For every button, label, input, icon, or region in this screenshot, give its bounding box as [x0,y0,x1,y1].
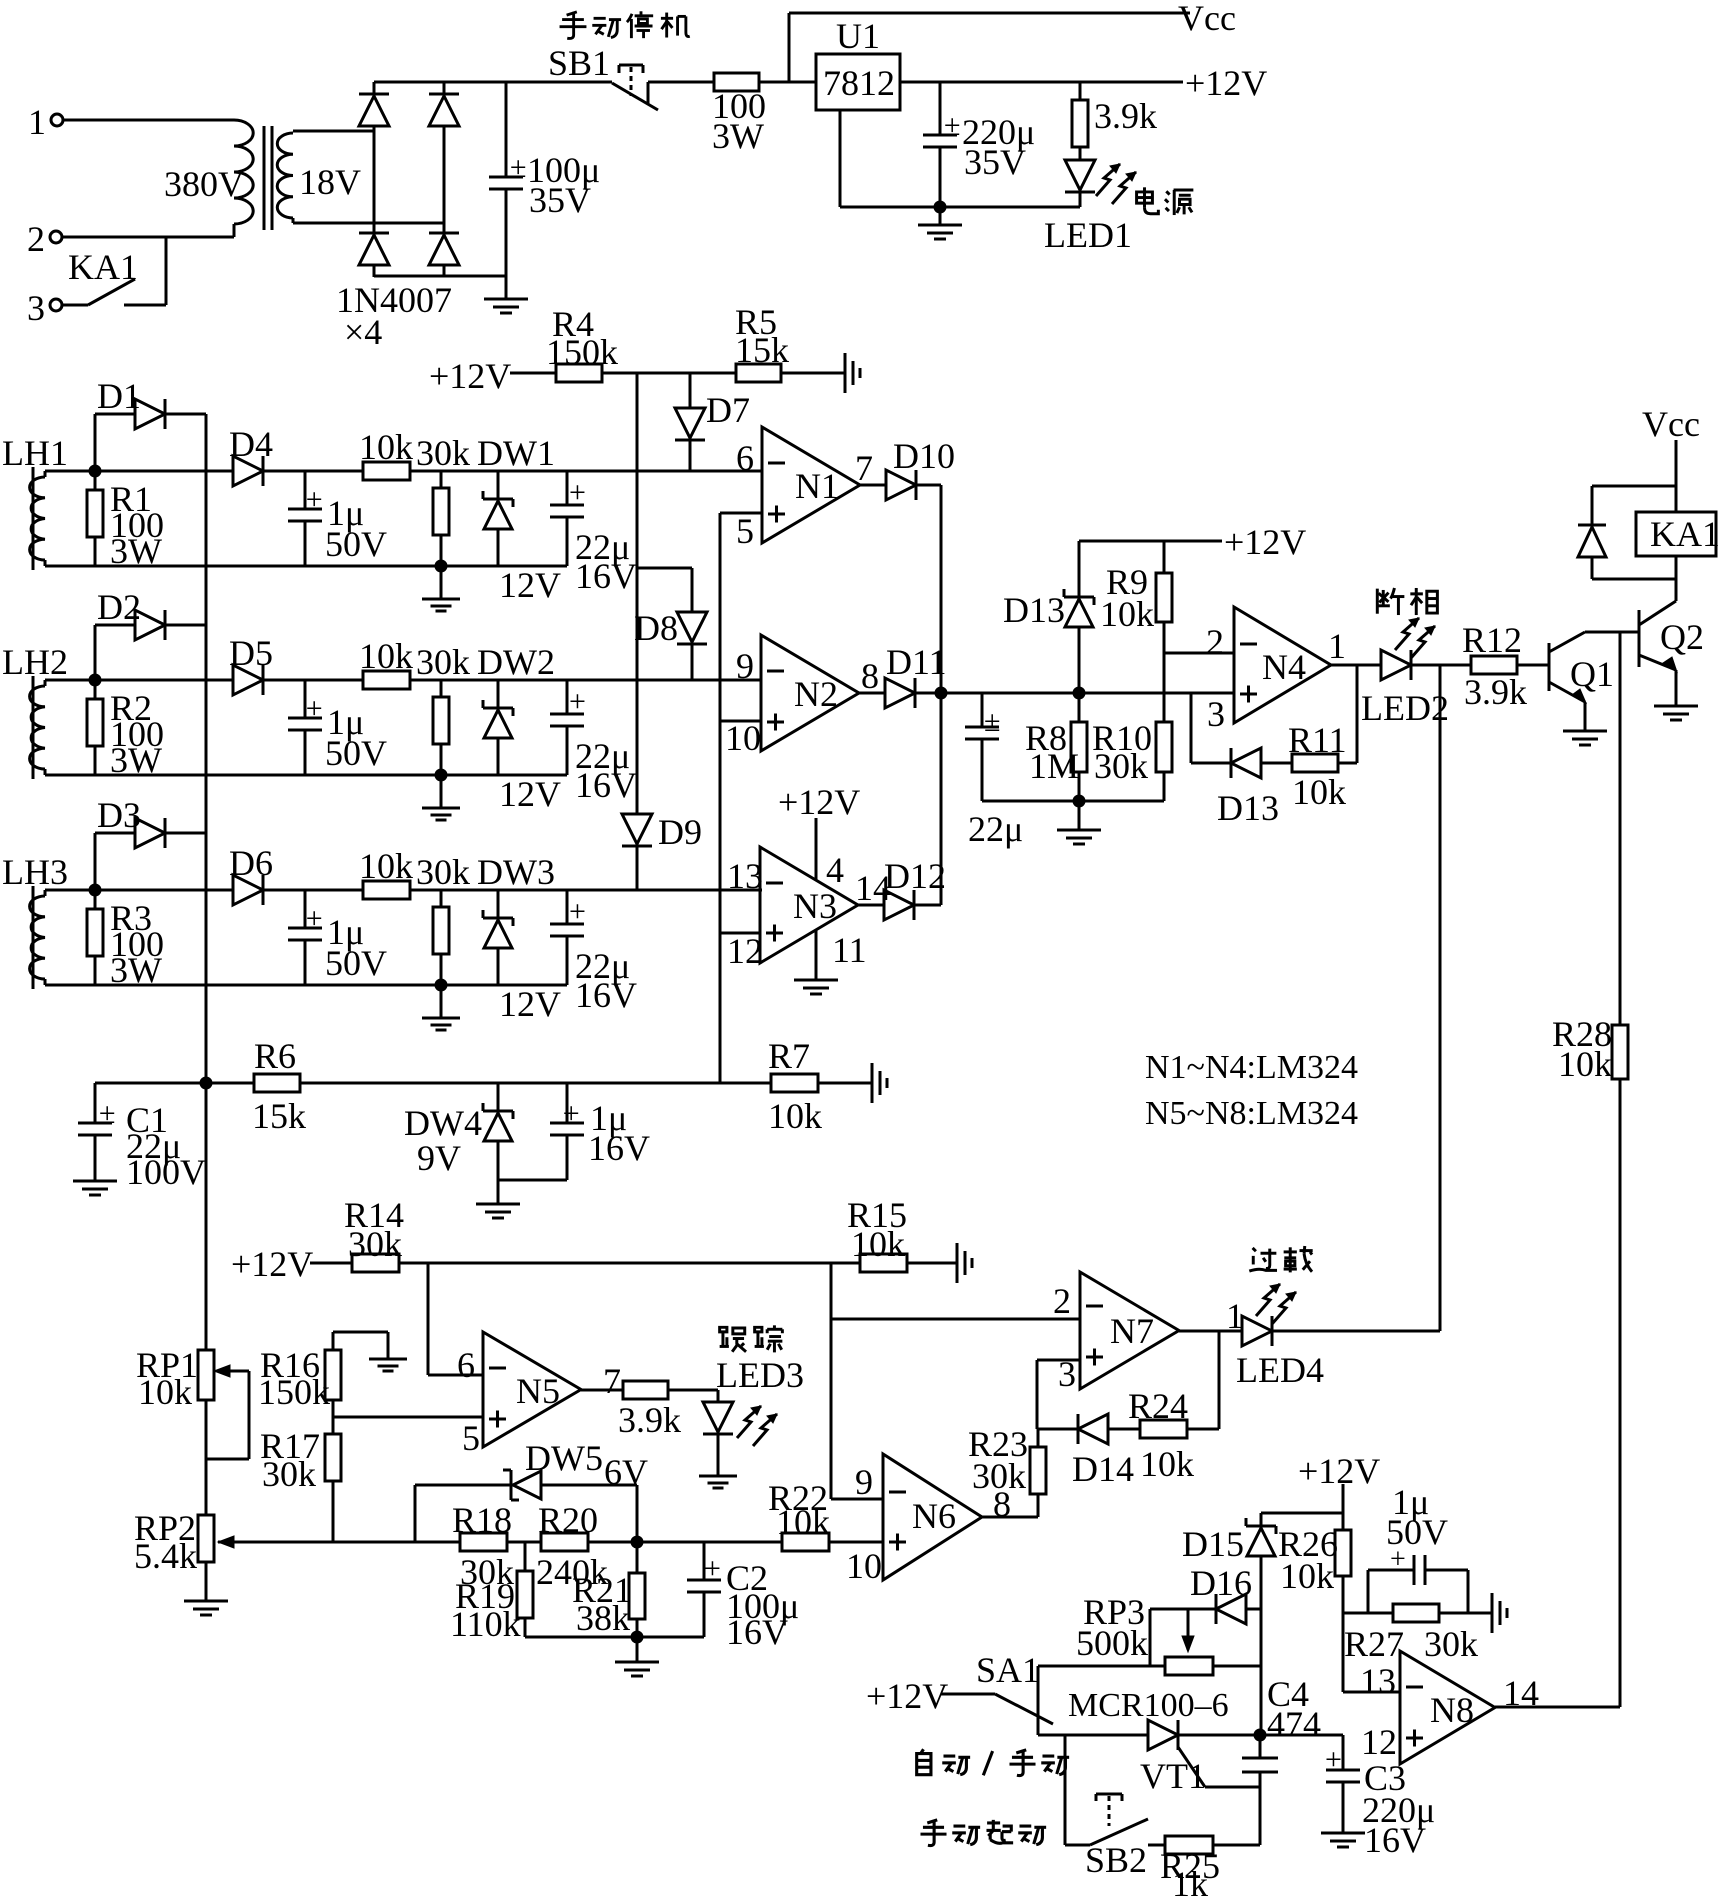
wire [1178,1734,1260,1737]
svg-text:±: ± [944,109,960,142]
diode D4 [229,424,273,486]
capacitor C1 22u 100V [78,1083,206,1192]
diode D9 [622,812,702,890]
wire [1191,762,1231,765]
LED2 [1361,618,1449,728]
wire [982,1516,1038,1519]
ground [918,207,962,239]
svg-text:13: 13 [1360,1661,1396,1701]
svg-text:D14: D14 [1072,1449,1134,1489]
wire [781,372,845,375]
label +12V [1185,63,1267,103]
wire N5 pin5 [333,1416,483,1419]
wire [1272,1330,1440,1333]
zener DW2 12V [477,642,561,814]
transformer core [264,126,272,230]
diode D13 feedback [1217,748,1279,828]
svg-text:10k: 10k [359,846,413,886]
wire [410,889,762,892]
diode D10 [860,436,955,500]
svg-text:D10: D10 [893,436,955,476]
svg-text:16V: 16V [575,975,637,1015]
wire [829,1541,883,1544]
label duan-xiang [1377,588,1437,615]
ground [615,1637,659,1676]
wire wiper rail [238,1541,460,1544]
svg-text:Q2: Q2 [1660,617,1704,657]
svg-text:7: 7 [603,1361,621,1401]
wire [1343,1612,1393,1615]
svg-text:12V: 12V [499,565,561,605]
resistor R17 30k [260,1400,341,1542]
wire [45,565,567,568]
resistor R21 38k [572,1542,645,1638]
wire [637,567,692,570]
svg-text:10k: 10k [1292,772,1346,812]
wire [293,218,444,223]
resistor R1 100 3W [87,471,164,571]
wire [1260,1734,1343,1737]
label Vcc [1178,0,1236,38]
node Vcc branch [788,13,791,82]
svg-text:±: ± [510,151,526,184]
ground [1057,801,1101,844]
op-amp N3 [727,847,891,971]
svg-text:30k: 30k [416,642,470,682]
svg-text:6: 6 [736,438,754,478]
svg-text:50V: 50V [325,733,387,773]
svg-text:7812: 7812 [823,63,895,103]
wire [907,1262,957,1265]
wire +12V rail [1079,540,1222,543]
svg-text:N4: N4 [1262,647,1306,687]
resistor 30k [416,852,470,985]
svg-text:N1: N1 [795,466,839,506]
svg-text:D11: D11 [886,642,947,682]
svg-text:10: 10 [846,1546,882,1586]
node [1073,687,1086,700]
op-amp N1 [736,427,873,551]
svg-text:12: 12 [1361,1722,1397,1762]
transistor Q1 [1549,632,1614,703]
capacitor 22u 16V [550,890,637,1015]
svg-text:N5: N5 [516,1371,560,1411]
wire [263,470,363,473]
svg-text:22μ: 22μ [968,809,1023,849]
wire [1439,1612,1492,1615]
svg-text:SB2: SB2 [1085,1840,1147,1880]
wire [45,470,95,473]
wire [95,470,233,473]
svg-text:2: 2 [1053,1281,1071,1321]
wire [45,889,95,892]
wire [759,81,816,84]
resistor R2 100 3W [87,680,164,780]
label LM324 [1145,1049,1358,1132]
wire N8 out [1495,1706,1620,1709]
capacitor 1u 50V [288,680,387,775]
wire [982,800,1164,803]
zener DW1 12V [477,433,561,605]
wire [63,224,234,237]
zener D13 [1003,541,1094,693]
svg-text:N8: N8 [1430,1690,1474,1730]
wire [720,1082,872,1085]
svg-text:16V: 16V [726,1612,788,1652]
resistor 10k [359,427,413,480]
svg-text:DW2: DW2 [477,642,555,682]
label +12V [429,356,511,396]
svg-text:12: 12 [727,931,763,971]
svg-text:30k: 30k [1424,1624,1478,1664]
wire [1338,665,1357,763]
svg-text:D8: D8 [634,608,678,648]
diode D5 [229,633,273,695]
diode D11 [859,642,947,708]
svg-text:50V: 50V [325,943,387,983]
label +12V [778,782,860,822]
svg-text:±: ± [306,483,322,516]
wire [410,679,762,682]
svg-text:10k: 10k [1280,1556,1334,1596]
resistor R5 15k [735,302,789,382]
diode bridge D-BR 1N4007 [429,233,459,265]
svg-text:380V: 380V [164,164,244,204]
svg-text:10k: 10k [138,1372,192,1412]
resistor 3.9k [1072,82,1157,147]
svg-text:+12V: +12V [866,1676,948,1716]
diode D16 [1150,1563,1261,1624]
resistor R4 150k [546,304,618,382]
label guo-zai [1249,1246,1312,1272]
wire [704,1541,782,1544]
svg-text:LED2: LED2 [1361,688,1449,728]
svg-text:KA1: KA1 [68,247,138,287]
LED4 [1236,1284,1324,1390]
svg-text:5: 5 [736,511,754,551]
svg-text:150k: 150k [258,1372,330,1412]
node [200,1077,213,1090]
SCR VT1 [1038,1720,1261,1796]
svg-text:30k: 30k [972,1456,1026,1496]
op-amp N6 [846,1454,1011,1586]
terminal 2 [27,219,62,259]
node [435,769,448,782]
svg-text:16V: 16V [1364,1820,1426,1860]
svg-text:SB1: SB1 [548,43,610,83]
wire [1108,1428,1140,1431]
wire [941,692,1234,695]
diode bridge D-TL 1N4007 [359,94,389,126]
svg-text:N6: N6 [912,1496,956,1536]
svg-text:LH2: LH2 [2,642,68,682]
diode D6 [229,843,273,905]
potentiometer RP1 10k [136,1345,249,1459]
regulator U1 7812 [816,16,900,110]
op-amp N5 [457,1332,621,1458]
svg-text:MCR100–6: MCR100–6 [1068,1687,1229,1724]
svg-text:30k: 30k [416,433,470,473]
resistor 30k [416,433,470,566]
wire [510,372,556,375]
transformer T secondary 18V [277,133,361,218]
wire bus outputs [940,485,943,905]
pushbutton SB1 [548,43,658,110]
svg-text:1k: 1k [1172,1864,1208,1896]
resistor R7 10k [768,1036,822,1136]
node [435,979,448,992]
svg-text:Vcc: Vcc [1178,0,1236,38]
current transformer LH1 [2,433,68,570]
wire Vcc rail [789,12,1190,15]
wire [1149,1609,1152,1666]
resistor R8 1M [1025,693,1087,801]
svg-text:+12V: +12V [231,1244,313,1284]
capacitor 22u 16V [550,471,637,596]
ground [476,1204,520,1218]
svg-text:30k: 30k [416,852,470,892]
wire N8 pin13 [1343,1691,1400,1694]
wire [443,82,446,94]
capacitor C4 474 [1242,1674,1321,1845]
svg-text:±: ± [306,692,322,725]
svg-text:LED1: LED1 [1044,215,1132,255]
svg-text:R12: R12 [1462,620,1522,660]
svg-text:6: 6 [457,1345,475,1385]
node LH1 out [89,465,102,478]
wire [1187,1331,1219,1429]
svg-text:LH3: LH3 [2,852,68,892]
wire [263,889,363,892]
ground [699,1476,737,1488]
wire [720,512,762,515]
svg-text:4: 4 [826,850,844,890]
wire [588,1541,704,1544]
node [631,1536,644,1549]
ground [1492,1593,1507,1633]
resistor R27 30k [1344,1604,1478,1664]
svg-text:LH1: LH1 [2,433,68,473]
svg-text:50V: 50V [325,524,387,564]
wire [443,265,446,277]
resistor R22 10k [768,1478,830,1551]
resistor 30k [416,642,470,775]
svg-text:+: + [1325,1743,1342,1776]
node LH2 out [89,674,102,687]
label +12V [231,1244,313,1284]
svg-text:110k: 110k [450,1604,521,1644]
wire [293,130,374,133]
svg-text:±: ± [563,1097,579,1130]
resistor R14 30k [344,1195,404,1272]
wire [374,81,612,84]
wire [206,1082,720,1085]
ground [957,1243,972,1283]
wire [1342,1484,1345,1530]
svg-text:+: + [569,685,586,718]
svg-text:10k: 10k [1100,594,1154,634]
label zi-dong/shou-dong [917,1749,1069,1775]
svg-text:2: 2 [1206,622,1224,662]
ground [1321,1833,1365,1847]
wire [1037,1666,1040,1735]
LED1 [940,147,1136,255]
diode D14 [1037,1414,1134,1489]
svg-text:10k: 10k [359,427,413,467]
capacitor 1u 50V [288,471,387,566]
wire [1261,762,1292,765]
wire [720,720,761,723]
ground [484,276,528,313]
svg-text:±: ± [306,902,322,935]
svg-text:10k: 10k [1558,1044,1612,1084]
wire [668,1389,718,1392]
resistor R25 1k [1148,1836,1260,1896]
svg-text:9: 9 [855,1462,873,1502]
svg-text:D7: D7 [706,390,750,430]
resistor R9 10k [1100,541,1172,722]
diode D3 [95,795,206,890]
svg-text:500k: 500k [1076,1623,1148,1663]
svg-text:7: 7 [855,448,873,488]
potentiometer RP2 5.4k [134,1400,238,1576]
svg-text:11: 11 [832,930,867,970]
zener D15 [1182,1513,1276,1735]
wire N4 out [1331,664,1381,667]
svg-text:SA1: SA1 [976,1650,1040,1690]
wire [95,679,233,682]
svg-text:D9: D9 [658,812,702,852]
transistor Q2 [1639,601,1704,672]
resistor R15 10k [847,1195,907,1272]
diode bridge D-BL 1N4007 [359,233,389,265]
svg-text:DW3: DW3 [477,852,555,892]
svg-text:N1~N4:LM324: N1~N4:LM324 [1145,1049,1358,1086]
svg-text:16V: 16V [575,556,637,596]
svg-text:N2: N2 [794,674,838,714]
zener DW4 9V [404,1083,513,1204]
diode flyback [1578,486,1676,579]
svg-text:R7: R7 [768,1036,810,1076]
svg-text:N3: N3 [793,886,837,926]
node [934,201,947,214]
potentiometer RP3 500k [1076,1592,1213,1675]
svg-text:30k: 30k [262,1454,316,1494]
resistor R16 150k [258,1332,388,1412]
transformer T primary 380V [164,120,253,224]
current transformer LH3 [2,852,68,989]
op-amp N7 [1053,1272,1244,1394]
label Vcc [1642,404,1700,444]
wire bus plus-inputs [719,513,722,1083]
wire feedback tap [1190,693,1193,763]
resistor R19 110k [450,1542,533,1644]
wire riser to LED2 node [1439,665,1442,1331]
wire N3 V+ pin4 [815,818,818,880]
diode D1 [95,376,206,471]
diode D7 [675,373,750,471]
resistor R12 3.9k [1462,620,1527,712]
svg-text:1: 1 [1328,626,1346,666]
wire [95,889,233,892]
svg-text:LED4: LED4 [1236,1350,1324,1390]
svg-text:+: + [569,476,586,509]
wire [1411,664,1471,667]
wire [45,774,567,777]
svg-text:D13: D13 [1003,590,1065,630]
wire [95,1082,206,1085]
wire [373,82,376,94]
svg-text:3W: 3W [712,116,764,156]
svg-text:+: + [1390,1544,1406,1575]
svg-text:10k: 10k [768,1096,822,1136]
wire [374,275,506,278]
label MCR100-6 [1068,1687,1229,1724]
svg-text:N5~N8:LM324: N5~N8:LM324 [1145,1095,1358,1132]
label 1N4007 x4 [336,280,452,352]
resistor R18 30k [452,1500,514,1592]
wire [310,1262,352,1265]
svg-text:N7: N7 [1110,1311,1154,1351]
svg-text:474: 474 [1267,1704,1321,1744]
zener DW5 6V [415,1438,648,1542]
svg-text:+12V: +12V [778,782,860,822]
diode D8 [634,568,707,680]
svg-text:9: 9 [736,646,754,686]
svg-text:KA1: KA1 [1650,514,1718,554]
svg-text:×4: ×4 [344,312,382,352]
svg-text:18V: 18V [299,162,361,202]
svg-text:3: 3 [27,288,45,328]
wire [1517,664,1549,667]
op-amp N4 [1207,607,1346,734]
op-amp N8 [1360,1651,1539,1764]
terminal 1 [28,102,63,142]
wire [45,679,95,682]
svg-text:10k: 10k [776,1502,830,1542]
label gen-zong [720,1325,783,1352]
ground N3 pin11 [794,930,838,994]
svg-text:U1: U1 [836,16,880,56]
wire N7 pin2 [831,1318,1080,1321]
ground [422,566,460,611]
wire [1261,1512,1343,1515]
label dian-yuan [1137,187,1194,215]
capacitor 100u 35V [489,82,600,276]
svg-text:±: ± [984,705,1000,738]
relay coil KA1 [1636,512,1718,556]
wire [63,119,234,122]
ground [872,1063,887,1103]
ground [422,775,460,820]
wire N5 pin6 drop [428,1263,483,1375]
wire [831,1498,883,1501]
capacitor 1u 50V [288,890,387,985]
svg-text:13: 13 [727,856,763,896]
capacitor 1u 50V feedback [1368,1482,1468,1613]
diode D12 [858,856,946,920]
resistor 10k [359,846,413,899]
resistor 100 3W [712,73,766,156]
wire [525,1636,704,1639]
resistor R26 10k [1278,1524,1351,1692]
wire [720,932,760,935]
ground Q2 [1654,670,1698,720]
label +12V [1224,522,1306,562]
svg-text:+12V: +12V [1224,522,1306,562]
wire [263,679,363,682]
svg-text:+: + [704,1552,721,1585]
